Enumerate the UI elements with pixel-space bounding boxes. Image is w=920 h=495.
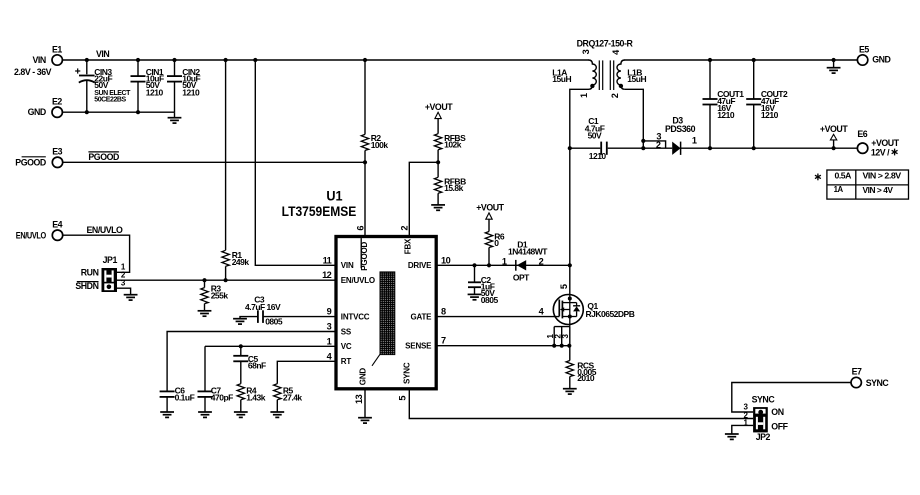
diode D3 PDS360 — [643, 141, 665, 148]
svg-text:E4: E4 — [52, 219, 62, 229]
svg-text:9: 9 — [327, 307, 332, 317]
inductor L1A primary winding — [589, 60, 597, 89]
svg-text:11: 11 — [323, 255, 332, 265]
ground at C3 — [233, 319, 247, 324]
svg-text:INTVCC: INTVCC — [341, 312, 370, 321]
svg-text:OPT: OPT — [513, 272, 530, 282]
svg-text:1210: 1210 — [589, 151, 607, 161]
svg-text:U1: U1 — [326, 187, 342, 203]
transistor Q1 RJK0652DPB — [553, 295, 583, 325]
wire Q1 source pins 1 2 3 — [554, 327, 570, 346]
svg-text:RUN: RUN — [81, 268, 99, 278]
ground at RFBB — [431, 205, 445, 210]
wire RT pin 4 to R5 — [277, 361, 336, 383]
svg-text:JP1: JP1 — [103, 255, 118, 265]
svg-text:DRQ127-150-R: DRQ127-150-R — [577, 39, 634, 49]
wire primary bottom to switch node — [570, 89, 589, 294]
svg-text:PGOOD: PGOOD — [88, 152, 119, 162]
ground at R3 — [198, 311, 212, 316]
svg-text:2: 2 — [610, 93, 620, 98]
node +VOUT arrow at output — [830, 134, 836, 140]
capacitor COUT2 47uF — [753, 60, 755, 99]
svg-text:15.8k: 15.8k — [444, 183, 464, 193]
svg-text:1.43k: 1.43k — [246, 392, 266, 402]
svg-text:JP2: JP2 — [756, 432, 771, 442]
wire SYNC pin 5 to JP2 pin 2 — [409, 389, 753, 419]
svg-text:50CE22BS: 50CE22BS — [94, 97, 126, 104]
capacitor COUT1 47uF — [709, 60, 711, 99]
svg-text:+VOUT: +VOUT — [820, 124, 848, 134]
svg-text:1210: 1210 — [146, 87, 164, 97]
svg-text:2: 2 — [539, 256, 544, 266]
terminal E5 GND — [857, 55, 867, 65]
svg-text:5: 5 — [559, 284, 569, 289]
svg-text:GND: GND — [872, 55, 890, 65]
svg-text:SS: SS — [341, 327, 352, 336]
svg-text:1: 1 — [327, 336, 332, 346]
svg-text:8: 8 — [441, 307, 446, 317]
svg-text:1210: 1210 — [717, 110, 735, 120]
wire DRIVE pin 10 net — [436, 264, 570, 266]
svg-text:+VOUT: +VOUT — [476, 202, 504, 212]
ground at C2 — [468, 294, 482, 299]
svg-text:0.1uF: 0.1uF — [175, 392, 195, 402]
wire E2 ground line — [62, 111, 174, 113]
svg-text:FBX: FBX — [403, 238, 412, 254]
svg-text:1: 1 — [502, 256, 507, 266]
terminal E3 PGOOD — [52, 157, 62, 167]
svg-text:E3: E3 — [52, 147, 62, 157]
svg-text:15uH: 15uH — [627, 74, 646, 84]
svg-text:2.8V - 36V: 2.8V - 36V — [14, 67, 52, 77]
svg-text:1210: 1210 — [182, 87, 200, 97]
resistor RFBB 15.8k — [437, 162, 439, 177]
svg-text:100k: 100k — [371, 140, 389, 150]
svg-text:68nF: 68nF — [248, 361, 266, 371]
svg-text:2: 2 — [656, 140, 661, 150]
resistor R3 255k — [202, 278, 206, 282]
svg-text:0805: 0805 — [481, 295, 499, 305]
svg-text:10: 10 — [441, 255, 451, 265]
wire JP1 pin 2 to EN/UVLO pin 12 — [117, 279, 336, 281]
wire JP1 pin 3 to ground — [117, 288, 131, 295]
resistor R2 100k — [364, 60, 366, 134]
svg-text:27.4k: 27.4k — [283, 392, 303, 402]
transformer phase dots — [590, 84, 594, 88]
capacitor C5 68nF — [240, 346, 242, 356]
svg-text:15uH: 15uH — [552, 74, 571, 84]
svg-text:3: 3 — [327, 322, 332, 332]
wire GND top rail from transformer secondary to E5 — [624, 59, 857, 61]
svg-text:2010: 2010 — [577, 373, 595, 383]
svg-text:EN/UVLO: EN/UVLO — [341, 276, 375, 285]
svg-text:PGOOD: PGOOD — [360, 241, 369, 270]
svg-text:VIN > 2.8V: VIN > 2.8V — [863, 171, 902, 180]
svg-text:OFF: OFF — [771, 422, 788, 432]
svg-text:50V: 50V — [588, 131, 602, 141]
resistor R4 1.43k — [237, 384, 244, 400]
wire FBX feedback to pin 2 — [409, 162, 438, 236]
capacitor C1 4.7uF coupling — [570, 147, 601, 149]
svg-text:PDS360: PDS360 — [665, 124, 696, 134]
wire VIN feed to U1 pin 11 — [255, 60, 336, 265]
svg-text:VIN: VIN — [96, 49, 109, 59]
svg-text:SYNC: SYNC — [752, 395, 776, 405]
svg-text:102k: 102k — [444, 140, 462, 150]
svg-text:PGOOD: PGOOD — [15, 158, 46, 168]
svg-text:LT3759EMSE: LT3759EMSE — [282, 203, 357, 219]
wire PGOOD net — [63, 161, 365, 163]
svg-text:VIN > 4V: VIN > 4V — [863, 186, 894, 195]
svg-text:E6: E6 — [857, 129, 867, 139]
svg-text:E7: E7 — [852, 366, 862, 376]
wire JP2 pin 1 to ground — [732, 425, 753, 434]
svg-text:GND: GND — [359, 368, 368, 386]
svg-text:1: 1 — [579, 93, 589, 98]
svg-text:SYNC: SYNC — [402, 362, 411, 384]
resistor RFBS 102k — [434, 134, 441, 150]
svg-text:GND: GND — [28, 107, 46, 117]
svg-text:VIN: VIN — [32, 55, 45, 65]
svg-text:255k: 255k — [211, 290, 229, 300]
capacitor C6 0.1uF — [160, 391, 175, 397]
svg-text:SHDN: SHDN — [75, 281, 98, 291]
svg-text:4: 4 — [611, 49, 621, 55]
capacitor CIN3 22uF electrolytic — [86, 60, 88, 74]
svg-text:RJK0652DPB: RJK0652DPB — [586, 309, 635, 319]
terminal E7 SYNC — [851, 377, 861, 387]
svg-text:12V /: 12V / — [871, 148, 890, 158]
capacitor C7 470pF — [204, 346, 206, 391]
svg-text:VC: VC — [341, 342, 352, 351]
svg-text:E5: E5 — [859, 45, 869, 55]
svg-text:6: 6 — [356, 226, 366, 231]
diode D1 1N4148WT OPT — [515, 260, 517, 271]
node +VOUT arrow at R6 — [486, 213, 492, 219]
ground at pin 13 — [358, 418, 372, 423]
svg-text:4.7uF 16V: 4.7uF 16V — [245, 302, 281, 312]
ground at input caps — [174, 112, 176, 118]
wire secondary bottom to D3 node — [625, 89, 644, 148]
ground at R4 — [234, 412, 248, 417]
wire SENSE pin 7 net — [436, 345, 570, 347]
svg-text:SENSE: SENSE — [405, 342, 432, 351]
svg-text:GATE: GATE — [410, 312, 432, 321]
svg-text:VIN: VIN — [341, 261, 354, 270]
svg-text:4: 4 — [327, 351, 333, 361]
svg-text:1N4148WT: 1N4148WT — [508, 247, 548, 257]
svg-text:+VOUT: +VOUT — [425, 102, 453, 112]
op-amp U1 LT3759EMSE body — [336, 237, 436, 389]
svg-text:RT: RT — [341, 357, 352, 366]
resistor RCS 0.005 sense — [569, 346, 571, 361]
svg-text:E1: E1 — [52, 44, 62, 54]
resistor R6 0 ohm — [488, 248, 490, 266]
svg-text:249k: 249k — [232, 257, 250, 267]
wire VC pin 1 to C7/C5 — [205, 345, 336, 347]
capacitor CIN2 10uF — [174, 60, 176, 76]
wire E7 to JP2 pin 3 — [732, 383, 851, 413]
wire GATE pin 8 to Q1 — [436, 316, 559, 318]
svg-text:13: 13 — [354, 394, 364, 404]
terminal E6 +VOUT — [857, 143, 867, 153]
jumper JP2 SYNC ON/OFF — [753, 407, 768, 432]
ground at RCS — [563, 389, 577, 394]
resistor R1 249k — [225, 60, 227, 250]
U1 exposed pad — [380, 272, 395, 355]
svg-text:EN/UVLO: EN/UVLO — [16, 231, 47, 241]
svg-text:1A: 1A — [834, 185, 844, 194]
svg-text:470pF: 470pF — [211, 392, 233, 402]
svg-text:SYNC: SYNC — [866, 378, 890, 388]
svg-text:5: 5 — [398, 396, 408, 401]
ground at C7 — [198, 412, 212, 417]
svg-text:12: 12 — [322, 270, 332, 280]
wire U1 pin 13 GND — [364, 389, 366, 418]
wire SS pin 3 to C6 — [167, 332, 336, 392]
ground at R5 — [270, 412, 284, 417]
ground at output rail — [832, 58, 836, 62]
svg-text:50V: 50V — [94, 80, 108, 90]
svg-text:3: 3 — [561, 334, 570, 339]
svg-text:3: 3 — [581, 49, 591, 54]
ground at JP2 — [725, 434, 739, 439]
wire VIN top rail from E1 to transformer primary — [62, 59, 589, 61]
jumper JP1 RUN/SHDN — [102, 268, 118, 292]
svg-text:1210: 1210 — [761, 110, 779, 120]
svg-text:DRIVE: DRIVE — [408, 261, 432, 270]
svg-text:E2: E2 — [52, 97, 62, 107]
svg-text:EN/UVLO: EN/UVLO — [87, 225, 124, 235]
capacitor CIN1 10uF — [137, 60, 139, 76]
output current table — [827, 170, 909, 199]
transformer core — [599, 60, 613, 90]
svg-text:1: 1 — [692, 136, 697, 146]
svg-text:0.5A: 0.5A — [835, 171, 852, 180]
terminal E1 VIN — [52, 55, 62, 65]
capacitor C3 4.7uF INTVCC — [263, 316, 336, 318]
wire EN/UVLO net to JP1 pin 1 — [63, 235, 130, 272]
svg-text:0805: 0805 — [265, 316, 283, 326]
svg-text:4: 4 — [539, 307, 545, 317]
inductor L1B secondary winding — [617, 60, 625, 89]
wire output line to E6 — [681, 147, 858, 149]
svg-text:ON: ON — [771, 407, 783, 417]
terminal E2 GND — [52, 107, 62, 117]
capacitor C2 1uF — [474, 265, 476, 282]
ground at C6 — [160, 412, 174, 417]
svg-text:7: 7 — [441, 336, 446, 346]
svg-text:2: 2 — [400, 226, 410, 231]
resistor R5 27.4k — [274, 384, 281, 400]
terminal E4 EN/UVLO — [52, 230, 62, 240]
